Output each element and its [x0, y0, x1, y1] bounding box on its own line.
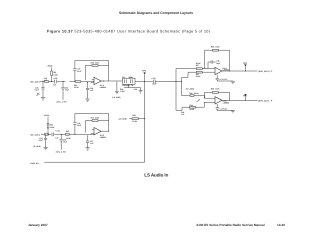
svg-text:Schematic Diagrams and Compone: Schematic Diagrams and Component Layouts	[119, 11, 193, 15]
ground	[115, 91, 119, 93]
svg-text:(SPK_OUT+): (SPK_OUT+)	[258, 70, 270, 73]
test point TP5	[244, 67, 246, 71]
junction dots	[42, 70, 246, 134]
svg-text:(VOL_2_5V): (VOL_2_5V)	[56, 150, 66, 153]
test point TP4	[144, 75, 146, 82]
svg-text:455E: 455E	[128, 76, 133, 79]
svg-text:1uF: 1uF	[55, 136, 58, 139]
capacitor C36 to node	[61, 82, 64, 100]
svg-text:20.0K: 20.0K	[196, 75, 201, 78]
svg-text:100K: 100K	[215, 45, 220, 48]
svg-text:LM2904: LM2904	[100, 86, 106, 89]
ground	[139, 91, 143, 93]
svg-text:R39: R39	[211, 88, 214, 91]
svg-text:.01uF: .01uF	[38, 139, 43, 142]
svg-text:+ C41 1uF: + C41 1uF	[219, 78, 227, 81]
svg-text:.01uF: .01uF	[77, 124, 82, 127]
diode D7	[36, 93, 39, 96]
wire feedback inner stage1	[86, 65, 109, 79]
resistor R39	[212, 92, 218, 94]
resistor R46	[45, 134, 49, 136]
wire feedback outer left stage1	[74, 61, 76, 82]
resistor R30	[75, 81, 81, 83]
node MIC_AUD2 row	[0, 0, 1, 1]
svg-text:C39: C39	[134, 88, 137, 91]
capacitor C40	[153, 80, 155, 84]
resistor R38	[212, 49, 218, 51]
svg-text:.1uF: .1uF	[43, 79, 47, 82]
wire LS_AUD row	[129, 118, 144, 120]
node j11	[245, 70, 246, 71]
svg-text:LM4880: LM4880	[223, 69, 229, 72]
svg-text:20.0K: 20.0K	[196, 62, 201, 65]
svg-text:+5V(A): +5V(A)	[47, 64, 53, 67]
svg-text:MIC_AUD 2: MIC_AUD 2	[31, 133, 40, 136]
resistor R42	[190, 106, 196, 108]
svg-text:1 AUD_IN >: 1 AUD_IN >	[30, 162, 39, 165]
node j12	[229, 100, 230, 101]
wire stub to ground left of filter	[116, 82, 118, 92]
resistor R37	[196, 68, 202, 70]
resistor R41	[196, 71, 202, 73]
node j10	[229, 70, 230, 71]
node j4	[74, 81, 75, 82]
svg-text:20.0K: 20.0K	[194, 92, 199, 95]
svg-text:.1uF: .1uF	[90, 142, 94, 145]
feedback loop opB	[205, 92, 230, 100]
capacitor C46	[73, 123, 76, 125]
wire net LS_AUD branch	[182, 72, 191, 95]
wire opA output	[222, 70, 257, 72]
svg-text:.01uF: .01uF	[77, 70, 82, 73]
svg-text:20.0K: 20.0K	[190, 108, 195, 111]
svg-text:10uF: 10uF	[65, 89, 69, 92]
node j9	[181, 81, 182, 82]
node j15	[47, 134, 48, 135]
svg-text:.01uF: .01uF	[34, 88, 39, 91]
capacitor C37	[73, 69, 76, 71]
wire row2 input	[41, 133, 94, 135]
node j13	[245, 100, 246, 101]
wire under filter	[124, 84, 141, 90]
svg-text:R45: R45	[66, 130, 69, 133]
svg-text:10.0K: 10.0K	[66, 137, 71, 140]
op-amp U1-B	[94, 128, 101, 135]
wire opA inverting input	[176, 68, 215, 70]
wire row1 input	[40, 81, 94, 83]
node j17	[74, 134, 75, 135]
svg-text:(LS_AUD): (LS_AUD)	[119, 117, 128, 120]
svg-text:10uF: 10uF	[152, 83, 156, 86]
wire bottom rail	[44, 161, 144, 163]
node j5	[87, 82, 88, 83]
node MIC_AUD1	[0, 0, 1, 1]
svg-text:LM2904: LM2904	[100, 136, 106, 139]
svg-text:100K: 100K	[215, 88, 220, 91]
resistor R35	[132, 118, 138, 120]
svg-text:10-36: 10-36	[277, 223, 285, 227]
op-amp U2-A	[215, 67, 222, 74]
svg-text:+ C39: + C39	[55, 130, 60, 133]
svg-text:R44: R44	[91, 116, 94, 119]
wire feedback outer top stage1	[75, 61, 109, 82]
wire right section vertical	[175, 69, 177, 111]
wire R40 to opB	[194, 96, 215, 99]
capacitor C41 bias opA	[216, 75, 233, 81]
capacitor C47 bias to ground	[86, 135, 89, 147]
svg-text:.1uF: .1uF	[181, 113, 185, 116]
svg-text:1.00K: 1.00K	[120, 90, 125, 93]
svg-text:LM4880: LM4880	[223, 102, 229, 105]
svg-text:R35: R35	[132, 114, 135, 117]
resistor R32	[92, 65, 98, 67]
tiny labels	[30, 45, 273, 165]
svg-text:(SPK_OUT-): (SPK_OUT-)	[258, 100, 269, 103]
node j1	[42, 81, 43, 82]
svg-text:LS Audio In: LS Audio In	[144, 173, 168, 178]
svg-text:+ C35: + C35	[53, 77, 58, 80]
svg-text:100K: 100K	[95, 61, 100, 64]
capacitor C35	[55, 80, 57, 84]
ground	[231, 81, 235, 83]
svg-text:+ C43 1uF: + C43 1uF	[219, 107, 227, 110]
node j3	[62, 81, 63, 82]
wire feedback inner stage2	[86, 121, 109, 133]
node j16	[61, 134, 62, 135]
test point TP6	[244, 96, 246, 100]
capacitor C38 bias to ground	[86, 82, 89, 98]
svg-text:R40: R40	[189, 92, 192, 95]
node j6	[103, 80, 104, 81]
capacitor C45 to node	[60, 134, 63, 149]
wire opB output	[222, 99, 257, 101]
svg-text:(LS_AUD): (LS_AUD)	[186, 87, 195, 90]
wire long vertical bus	[144, 82, 146, 163]
wire feedback outer top stage2	[75, 114, 109, 132]
ground	[231, 111, 235, 113]
wire op-amp output row1	[101, 80, 122, 82]
svg-text:1uF: 1uF	[53, 84, 56, 87]
resistor R29	[45, 81, 49, 83]
op-amp U1-A	[94, 77, 101, 84]
capacitor C42	[208, 60, 216, 68]
node j14	[144, 118, 145, 119]
wire feedback outer left stage2	[74, 114, 76, 135]
wire row1 mid	[135, 81, 182, 83]
resistor R43	[65, 134, 69, 136]
svg-text:20.0K: 20.0K	[132, 120, 137, 123]
op-amp U2-B	[215, 97, 222, 104]
capacitor C44 to ground	[44, 134, 47, 147]
wire +5V stub stage2	[47, 117, 49, 134]
filter FL1	[123, 78, 136, 84]
svg-text:R32: R32	[91, 61, 94, 64]
svg-text:FL1: FL1	[122, 76, 125, 79]
svg-text:10uF: 10uF	[63, 141, 67, 144]
capacitor C33 to ground	[41, 82, 44, 98]
ground	[86, 148, 90, 150]
resistor R34	[47, 124, 49, 129]
svg-text:MIC_AUD 1: MIC_AUD 1	[31, 81, 40, 84]
node j7	[144, 81, 145, 82]
ground	[41, 98, 45, 100]
node arrow mark	[197, 100, 200, 102]
svg-text:1.00K: 1.00K	[53, 73, 58, 76]
wire +5V stub stage1	[51, 68, 53, 82]
svg-text:(B_AUD): (B_AUD)	[34, 145, 42, 148]
svg-text:10pF: 10pF	[216, 62, 220, 65]
svg-text:1.00K: 1.00K	[50, 126, 55, 129]
svg-text:Figure 10.37 523-5035-480-014: Figure 10.37 523-5035-480-01487 User Int…	[47, 30, 211, 34]
ground	[86, 99, 90, 101]
svg-text:R38: R38	[211, 45, 214, 48]
feedback loop opA	[205, 50, 230, 71]
svg-text:.1uF: .1uF	[90, 89, 94, 92]
ground	[44, 148, 48, 150]
wire opA non-inverting input	[188, 71, 215, 73]
resistor R31	[51, 71, 53, 76]
svg-text:+ C40: + C40	[151, 77, 156, 80]
capacitor C43 bias opB	[216, 104, 233, 110]
wire bottom rail right to opB plus	[176, 102, 215, 110]
capacitor C39	[52, 132, 54, 136]
svg-text:January 2007: January 2007	[28, 223, 48, 227]
svg-text:(LS_AUD): (LS_AUD)	[112, 96, 121, 99]
svg-text:6100 ES Series Portable Radio: 6100 ES Series Portable Radio Service Ma…	[197, 223, 265, 227]
resistor R40	[190, 95, 194, 97]
svg-text:CERAMIC FIL: CERAMIC FIL	[122, 84, 134, 87]
svg-text:(VOL_2_5V): (VOL_2_5V)	[57, 101, 67, 104]
svg-text:R42: R42	[190, 104, 193, 107]
node j8	[175, 81, 176, 82]
node j18	[108, 131, 109, 132]
node j2	[51, 81, 52, 82]
wire opB output to LS_AUD row	[101, 130, 109, 132]
svg-text:10.0K: 10.0K	[74, 86, 79, 89]
svg-text:+5V(A): +5V(A)	[44, 114, 50, 117]
svg-text:100K: 100K	[95, 116, 100, 119]
resistor R44	[92, 120, 98, 122]
